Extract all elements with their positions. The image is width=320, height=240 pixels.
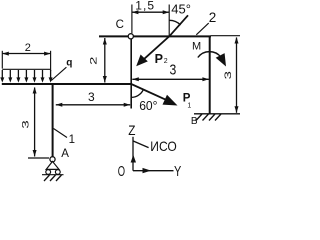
- svg-text:45°: 45°: [171, 1, 191, 16]
- svg-text:1,5: 1,5: [135, 0, 155, 13]
- svg-text:3: 3: [223, 71, 233, 80]
- svg-text:60°: 60°: [139, 98, 157, 113]
- svg-text:2: 2: [25, 42, 31, 54]
- svg-text:3: 3: [88, 90, 95, 104]
- svg-text:Y: Y: [174, 164, 182, 180]
- svg-text:Z: Z: [128, 123, 135, 138]
- svg-text:O: O: [118, 164, 125, 180]
- svg-text:P: P: [155, 52, 163, 66]
- svg-text:2: 2: [209, 10, 217, 25]
- svg-text:1: 1: [187, 102, 191, 109]
- svg-text:2: 2: [164, 58, 168, 65]
- svg-text:ИСО: ИСО: [150, 138, 177, 154]
- svg-text:2: 2: [89, 56, 99, 65]
- svg-text:3: 3: [170, 62, 177, 78]
- svg-text:q: q: [66, 58, 72, 69]
- svg-text:A: A: [61, 148, 69, 160]
- svg-text:C: C: [116, 19, 124, 31]
- svg-text:3: 3: [20, 120, 30, 129]
- svg-text:1: 1: [69, 134, 75, 146]
- svg-text:M: M: [192, 40, 201, 52]
- svg-text:B: B: [191, 116, 198, 127]
